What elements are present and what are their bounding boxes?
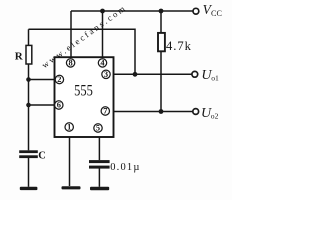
svg-text:3: 3: [104, 70, 108, 79]
wire pin8 vertical: [70, 11, 72, 59]
wire pin4 vertical: [102, 11, 104, 59]
wire pin5 lead: [98, 137, 100, 160]
wire R top feedback to pin3: [29, 29, 136, 74]
pin 2: [55, 75, 63, 84]
svg-text:2: 2: [57, 75, 61, 84]
svg-text:C: C: [38, 150, 46, 161]
pin 1: [65, 123, 73, 132]
wire top rail Vcc: [71, 10, 193, 12]
wire 4.7k upper lead: [160, 11, 162, 34]
svg-text:0.01µ: 0.01µ: [110, 162, 140, 173]
resistor R body: [26, 45, 32, 64]
ground (0.01u): [90, 187, 109, 190]
wire pin6 stub: [29, 104, 57, 106]
pin 4: [98, 59, 106, 68]
pin 6: [55, 101, 63, 110]
svg-text:4.7k: 4.7k: [166, 39, 192, 53]
wire 4.7k lower lead: [160, 51, 162, 112]
pin 7: [101, 107, 109, 116]
svg-text:6: 6: [57, 101, 61, 110]
node junction pin6: [26, 103, 31, 108]
node junction top 4.7k: [159, 9, 164, 14]
IC U1 555 timer box: [55, 57, 114, 137]
wire pin3 output: [110, 73, 192, 75]
svg-text:7: 7: [103, 107, 107, 116]
wire pin1 ground lead: [69, 137, 71, 186]
node junction pin7 4.7k: [159, 109, 164, 114]
svg-text:o2: o2: [211, 111, 219, 120]
resistor 4.7k body: [158, 33, 165, 51]
node junction top pin4: [100, 9, 105, 14]
terminal Vcc: [193, 8, 199, 14]
wire pin2 stub: [29, 79, 57, 81]
svg-text:5: 5: [96, 124, 100, 133]
node junction pin3 feedback: [133, 72, 138, 77]
terminal Uo2: [193, 109, 199, 115]
pin 5: [94, 124, 102, 133]
pin 8: [66, 59, 74, 68]
svg-text:1: 1: [67, 123, 71, 132]
wire C to ground: [28, 158, 30, 187]
svg-text:R: R: [15, 50, 24, 62]
watermark www.elecfans.com: [40, 2, 129, 70]
terminal Uo1: [192, 71, 198, 77]
pin 3: [102, 70, 110, 79]
node junction pin2: [26, 77, 31, 82]
wire pin7 output: [110, 111, 193, 113]
svg-text:555: 555: [74, 82, 93, 100]
capacitor C plates: [19, 150, 38, 153]
ground (pin1): [62, 186, 81, 189]
capacitor 0.01u plates: [89, 160, 110, 163]
svg-text:CC: CC: [211, 9, 222, 18]
wire R vertical branch: [28, 29, 30, 150]
wire 0.01u to ground: [98, 169, 100, 187]
svg-text:o1: o1: [211, 73, 219, 82]
ground (C branch): [20, 187, 38, 190]
svg-text:8: 8: [69, 59, 73, 68]
